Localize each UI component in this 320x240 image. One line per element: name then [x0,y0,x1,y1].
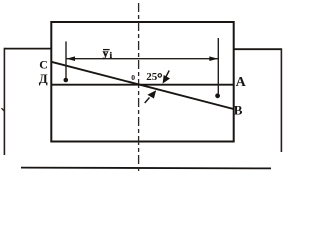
small tick on left edge [2,108,5,111]
angle arrow to horizontal line [163,71,169,83]
dimension right arrowhead [209,56,218,61]
outer body top edge right segment [234,48,282,50]
svg-text:A: A [236,75,247,90]
slanted line C-B [51,62,233,109]
angle arrow to slanted line [145,91,156,103]
dimension left arrowhead [66,56,75,61]
vertical dashed centerline [138,3,140,172]
outer body right edge [280,48,282,152]
svg-text:B: B [234,102,243,117]
left extension line [65,41,67,78]
svg-text:C: C [39,58,48,72]
left point dot [64,78,69,83]
dimension line ybar_i [66,58,218,60]
outer body bottom edge (base line) [21,167,271,170]
right extension line [217,38,219,94]
inner rectangle (plate outline) [51,22,233,142]
svg-text:Д: Д [39,71,48,86]
svg-text:0: 0 [131,73,135,82]
svg-text:25: 25 [146,71,158,83]
right point dot [215,93,220,98]
horizontal axis line D-A [51,84,233,86]
outer body left edge [3,48,5,155]
outer body top edge left segment [4,48,51,50]
